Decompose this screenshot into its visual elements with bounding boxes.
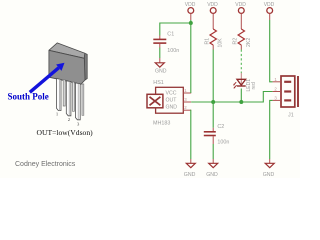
svg-text:1: 1 xyxy=(274,77,277,82)
pin 3 front leg xyxy=(75,83,80,120)
svg-text:J1: J1 xyxy=(288,112,294,118)
sensor package body right side face xyxy=(84,53,87,80)
capacitor C1 xyxy=(153,36,166,48)
svg-text:OUT: OUT xyxy=(166,98,178,104)
pin 2 front leg xyxy=(66,81,71,116)
resistor R2 xyxy=(238,29,244,50)
J1 pin 2 stub xyxy=(273,87,281,92)
label MH183 xyxy=(153,121,170,127)
svg-text:GND: GND xyxy=(166,105,178,111)
svg-text:MH183: MH183 xyxy=(153,121,170,127)
hall sensor HS1 body xyxy=(156,87,184,113)
svg-text:red: red xyxy=(251,82,257,89)
svg-text:10K: 10K xyxy=(217,38,223,48)
ground symbol below J1 xyxy=(263,159,275,178)
wire VDD1 to node A xyxy=(190,20,192,23)
pin 1 back leg xyxy=(63,80,65,106)
label 2K2 (R2 value) xyxy=(246,38,252,47)
svg-text:2: 2 xyxy=(184,105,187,110)
label 10K (R1 value) xyxy=(217,38,223,48)
svg-text:GND: GND xyxy=(263,172,275,178)
svg-text:2: 2 xyxy=(274,87,277,92)
svg-text:2: 2 xyxy=(68,117,71,122)
supply VDD4 symbol xyxy=(264,2,275,20)
pin 3 back leg xyxy=(82,84,84,115)
label R1 xyxy=(204,38,210,45)
wire C1 to ground xyxy=(159,48,161,59)
svg-text:VCC: VCC xyxy=(166,90,177,96)
pin 1 front leg xyxy=(57,79,62,111)
dashed wire R2 to LED1 xyxy=(240,50,242,74)
wire HS1 GND down to ground xyxy=(190,110,192,159)
svg-text:Codney Electronics: Codney Electronics xyxy=(15,161,76,168)
svg-text:100n: 100n xyxy=(217,140,229,146)
svg-text:OUT=low(Vdson): OUT=low(Vdson) xyxy=(37,128,94,137)
LED LED1 symbol xyxy=(233,79,246,88)
wire node C to J1 pin 2 xyxy=(241,92,272,103)
supply VDD1 symbol xyxy=(185,2,196,20)
hall sensor HS1 label xyxy=(153,80,164,86)
ground symbol below C2 xyxy=(206,159,218,178)
HS1 pin 3 stub (OUT) xyxy=(183,97,191,102)
wire LED1 to node C xyxy=(240,89,242,103)
svg-text:3: 3 xyxy=(274,96,277,101)
sensor package body front face xyxy=(49,50,85,84)
svg-text:C1: C1 xyxy=(167,31,174,37)
pin number 2 xyxy=(68,117,71,122)
label South Pole xyxy=(8,92,49,102)
wire C2 to ground xyxy=(212,144,214,159)
label J1 xyxy=(288,112,294,118)
label C2 xyxy=(217,124,224,130)
label C1 xyxy=(167,31,174,37)
svg-text:1: 1 xyxy=(56,112,59,117)
supply VDD3 symbol xyxy=(235,2,246,29)
J1 pin 3 stub xyxy=(273,96,281,101)
pin number 1 xyxy=(56,112,59,117)
svg-text:South Pole: South Pole xyxy=(8,92,49,102)
wire HS1 VCC up to VDD1 xyxy=(190,23,192,93)
svg-text:GND: GND xyxy=(206,172,218,178)
wire node B down to C2 xyxy=(212,102,214,128)
svg-text:3: 3 xyxy=(184,97,187,102)
LED D1 anode stub xyxy=(240,73,242,79)
node A junction xyxy=(189,21,193,25)
label OUT=low(Vdson) xyxy=(37,128,94,137)
svg-text:GND: GND xyxy=(155,68,167,74)
J1 pin 1 stub xyxy=(273,77,281,82)
ground symbol under C1 xyxy=(155,58,167,74)
wire HS1 OUT to node B xyxy=(191,101,213,103)
supply VDD2 symbol xyxy=(207,2,218,29)
wire VDD4 to J1 pin 1 xyxy=(270,20,273,82)
resistor R1 xyxy=(210,29,216,50)
pin number 3 xyxy=(77,121,80,126)
node C junction xyxy=(239,100,243,104)
svg-text:R2: R2 xyxy=(232,38,238,45)
svg-text:3: 3 xyxy=(77,121,80,126)
label R2 xyxy=(232,38,238,45)
ground symbol below HS1 xyxy=(184,159,196,178)
svg-text:HS1: HS1 xyxy=(153,80,164,86)
node B junction xyxy=(211,100,215,104)
svg-text:2K2: 2K2 xyxy=(246,38,252,47)
HS1 pin 1 stub (VCC) xyxy=(183,88,191,93)
label LED1 xyxy=(246,79,252,92)
label Codney Electronics xyxy=(15,161,76,168)
svg-text:GND: GND xyxy=(184,172,196,178)
blue pointer arrow xyxy=(30,63,65,93)
wire node B to node C xyxy=(213,101,241,103)
connector J1 body xyxy=(281,76,298,107)
svg-text:R1: R1 xyxy=(204,38,210,45)
svg-text:1: 1 xyxy=(184,88,187,93)
svg-text:100n: 100n xyxy=(167,48,179,54)
pin 2 back leg xyxy=(73,82,75,111)
sensor package body top face xyxy=(49,43,85,58)
HS1 pin 2 stub (GND) xyxy=(183,105,191,110)
hall sensor HS1 X mark box xyxy=(147,94,163,108)
wire node A to C1 xyxy=(160,23,191,36)
capacitor C2 xyxy=(204,128,216,144)
label red (LED colour) xyxy=(251,82,257,89)
svg-text:C2: C2 xyxy=(217,124,224,130)
label 100n (C2 value) xyxy=(217,140,229,146)
label 100n (C1 value) xyxy=(167,48,179,54)
wire J1 pin 3 to ground xyxy=(270,100,273,159)
wire R1 to node B xyxy=(212,50,214,103)
